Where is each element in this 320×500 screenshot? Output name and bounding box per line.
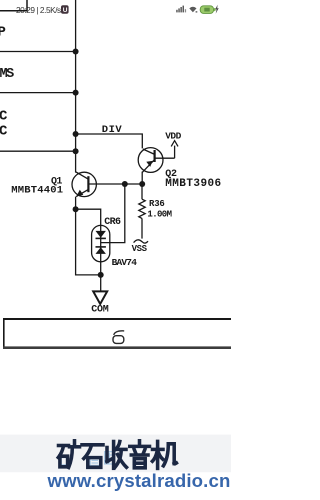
- title strip top border: [3, 318, 231, 320]
- status bar charging bolt: [215, 5, 219, 14]
- wire: top-left net with riser: [0, 0, 27, 11]
- ground symbol COM: [93, 291, 107, 304]
- node: junction dot to CR6 tap: [122, 181, 128, 187]
- node: junction dot Q2 collector / R36: [139, 181, 145, 187]
- char shi: [82, 445, 103, 468]
- node: junction dot P/bus: [73, 49, 79, 55]
- wire: drop to COM ground: [100, 275, 102, 291]
- transistor Q2 MMBT3906 (PNP): [138, 148, 174, 184]
- title strip left border: [3, 318, 5, 349]
- power symbol VDD: [171, 141, 178, 159]
- title strip bottom border: [3, 346, 231, 349]
- char ji: [152, 441, 176, 468]
- wire: left drop to bottom rail: [76, 209, 101, 275]
- char yin: [130, 441, 150, 468]
- zone number 6: [113, 331, 124, 344]
- watermark seal (light blue): [61, 452, 114, 466]
- wire: net at y151 from left to bus: [0, 150, 76, 152]
- status bar app icon: [61, 5, 69, 14]
- node: junction dot at Q1 emitter: [73, 206, 79, 212]
- power symbol VSS: [134, 240, 148, 243]
- node: junction dot bottom rail / CR6: [98, 272, 104, 278]
- diode pair CR6 BAV74: [92, 225, 110, 275]
- status bar battery icon: [200, 6, 215, 14]
- char kuang: [58, 441, 79, 468]
- wire: net MS horizontal: [0, 92, 76, 94]
- wire: net P horizontal: [0, 51, 76, 53]
- char shou: [107, 442, 127, 469]
- transistor Q1 MMBT4401 (NPN, base at right): [72, 172, 96, 209]
- wire: Q1 base node line: [88, 183, 142, 185]
- svg-text:www.crystalradio.cn: www.crystalradio.cn: [47, 470, 231, 491]
- watermark background band: [0, 435, 231, 473]
- resistor R36: [139, 184, 145, 239]
- node: junction dot DIV/bus: [73, 131, 79, 137]
- watermark logo text 矿石收音机 (drawn strokes): [0, 0, 231, 500]
- wire: CR6 center tap to node: [101, 184, 125, 243]
- wire: vertical bus: [75, 0, 77, 173]
- wire: net DIV from bus to Q2 base: [76, 134, 143, 148]
- node: junction dot y151/bus: [73, 148, 79, 154]
- node: junction dot MS/bus: [73, 90, 79, 96]
- wire: Q1 emitter to CR6 top: [76, 209, 101, 225]
- status bar signal icon: [176, 6, 186, 13]
- status bar wifi icon: [189, 7, 197, 13]
